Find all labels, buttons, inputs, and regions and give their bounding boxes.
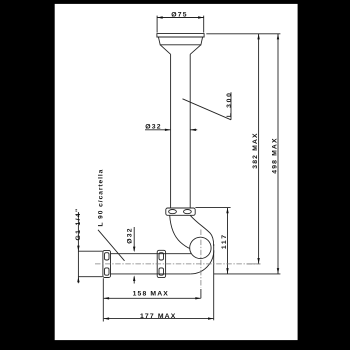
trap slip nut <box>166 208 195 215</box>
centerline trap vertical <box>200 230 202 288</box>
dimension D32 horizontal pipe bottom arrow line <box>133 277 135 284</box>
dimension 177 MAX line <box>104 318 214 320</box>
svg-text:L 90 c/cartella: L 90 c/cartella <box>97 169 104 227</box>
arrow D32 pipe left <box>165 129 171 131</box>
trap slip nut right oval <box>184 210 192 214</box>
mid slip nut <box>157 250 165 277</box>
centerline horizontal <box>95 263 261 265</box>
arrow D75 left <box>157 16 163 18</box>
trap bulb circle <box>190 237 211 258</box>
dimension 382 MAX line <box>258 34 260 264</box>
extension line trap nut top right <box>195 207 230 209</box>
dimension D75 line <box>157 17 204 19</box>
dimension G1 1/4 extension top <box>78 250 102 252</box>
arrow 158 right <box>195 297 201 299</box>
mid slip nut bottom hole <box>159 268 164 275</box>
arrow 158 left <box>104 297 110 299</box>
wall flange <box>103 250 111 277</box>
dimension D75 extension line left <box>156 16 158 33</box>
arrow 382 bottom <box>257 258 259 264</box>
trap right tangent and extension line to 177 <box>213 244 215 320</box>
arrow 117 top <box>226 208 228 214</box>
mid slip nut top hole <box>159 253 164 260</box>
extension from trap centerline to 158 <box>200 289 202 298</box>
svg-text:117: 117 <box>221 233 228 249</box>
dimension G1 1/4 line <box>77 212 79 283</box>
svg-text:158 MAX: 158 MAX <box>133 291 169 298</box>
dimension 158 MAX line <box>104 297 201 299</box>
arrow 177 left <box>104 317 110 319</box>
arrow 498 bottom <box>277 268 279 274</box>
leader line L90 <box>98 230 125 261</box>
dimension D75 extension line right <box>203 16 205 33</box>
arrow G114 bottom <box>77 277 79 283</box>
dimension D32 vertical pipe left part <box>145 129 170 131</box>
svg-text:Ø75: Ø75 <box>171 12 187 19</box>
horizontal pipe top edge <box>111 253 192 255</box>
svg-text:Ø32: Ø32 <box>145 123 161 130</box>
wall flange top hole <box>105 253 110 260</box>
left extension line for 158 and 177 <box>102 278 104 321</box>
dimension 498 MAX line <box>277 34 279 274</box>
wall flange bottom hole <box>105 268 110 275</box>
svg-text:177 MAX: 177 MAX <box>140 313 176 320</box>
dimension 117 line <box>227 208 229 274</box>
ceiling flange cone left <box>160 45 170 55</box>
arrow 498 top <box>277 34 279 40</box>
leader line L300 <box>183 92 232 120</box>
dimension D32 vertical pipe right part <box>190 129 197 131</box>
horizontal pipe bottom edge <box>111 273 191 275</box>
dimension G1 1/4 extension bottom <box>78 276 102 278</box>
trap right S-curve <box>190 215 213 246</box>
arrow G114 top <box>77 246 79 252</box>
ceiling flange cone right <box>190 45 201 55</box>
bottom extension line for 117 and 498 <box>214 273 281 275</box>
arrow D32 pipe right <box>190 129 196 131</box>
vertical pipe right edge <box>189 54 191 208</box>
arrow 177 right <box>208 317 214 319</box>
svg-text:382 MAX: 382 MAX <box>252 132 259 168</box>
ceiling flange mid band <box>158 37 202 45</box>
trap slip nut left oval <box>169 210 177 214</box>
ceiling flange top plate <box>157 34 204 37</box>
top extension line to right dimensions <box>206 33 280 35</box>
svg-text:L 300: L 300 <box>226 91 233 117</box>
trap bottom arc <box>190 250 214 274</box>
vertical pipe left edge <box>170 54 172 208</box>
white drawing sheet <box>55 4 298 340</box>
arrow 382 top <box>257 34 259 40</box>
trap left S-curve <box>170 215 190 248</box>
arrow 117 bottom <box>226 268 228 274</box>
arrow D32h bottom <box>133 275 135 281</box>
arrow D75 right <box>198 16 204 18</box>
dimension D32 horizontal pipe top arrow line <box>133 227 135 251</box>
svg-text:G1 1/4": G1 1/4" <box>75 207 82 240</box>
svg-text:498 MAX: 498 MAX <box>272 137 279 173</box>
arrow D32h top <box>133 247 135 253</box>
svg-text:Ø32: Ø32 <box>127 227 134 243</box>
centerline horizontal end dash <box>247 263 261 265</box>
